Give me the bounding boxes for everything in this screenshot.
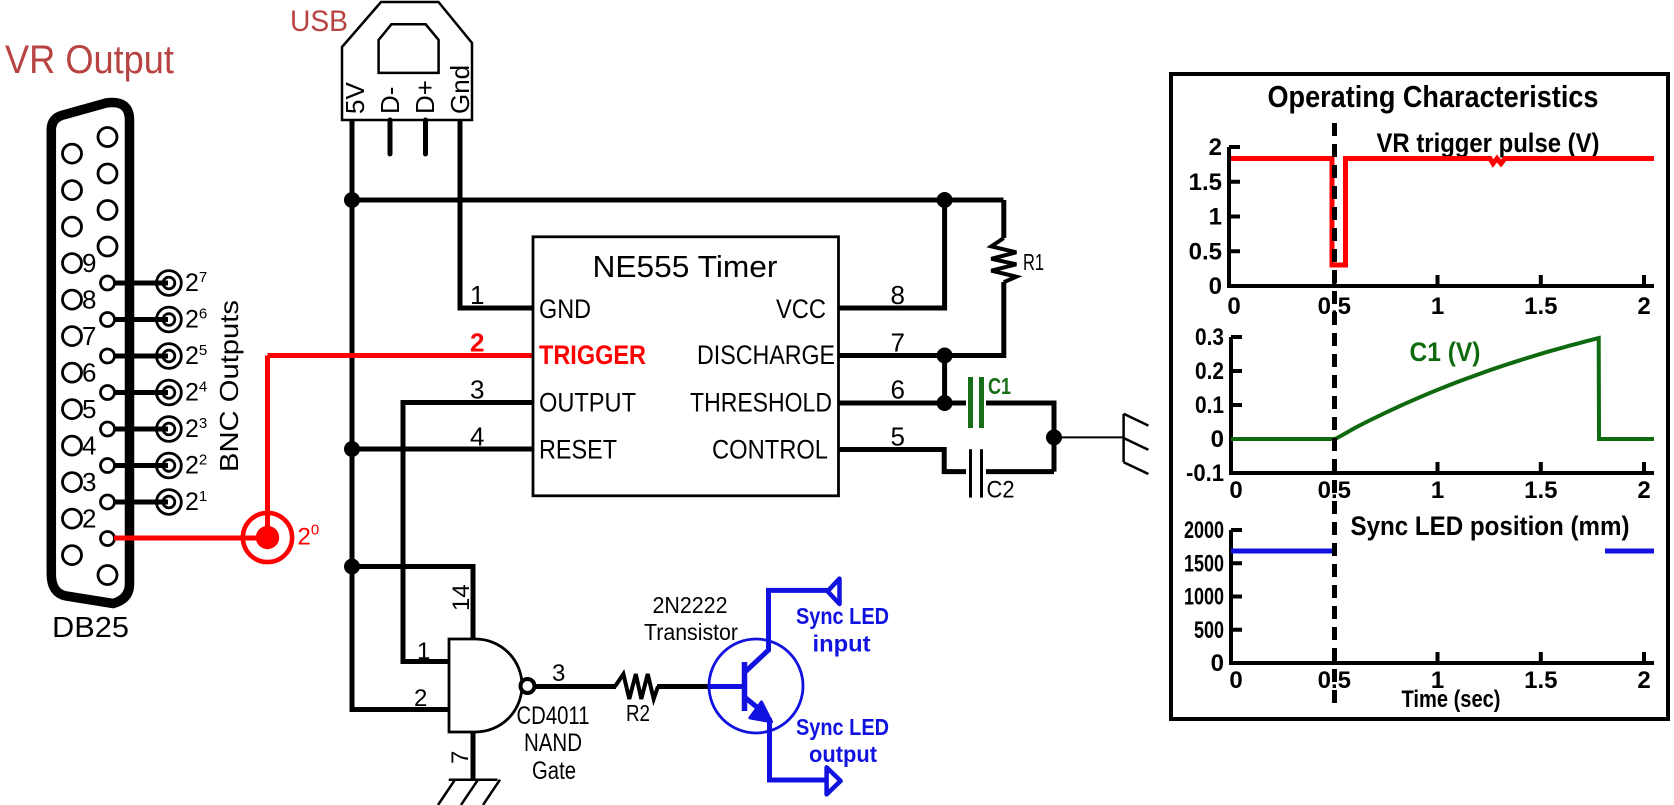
svg-text:DB25: DB25 [52,612,129,644]
svg-text:VR trigger pulse (V): VR trigger pulse (V) [1377,128,1600,158]
svg-text:3: 3 [470,375,484,405]
svg-text:output: output [809,741,877,767]
svg-text:0.2: 0.2 [1195,358,1224,385]
svg-text:1: 1 [470,280,484,310]
svg-text:0: 0 [1211,650,1224,677]
svg-text:1: 1 [417,638,430,665]
svg-text:1: 1 [1431,293,1444,320]
svg-text:C2: C2 [987,477,1015,504]
svg-text:THRESHOLD: THRESHOLD [690,388,832,418]
svg-text:1.5: 1.5 [1524,477,1557,504]
svg-text:0: 0 [1229,477,1242,504]
svg-text:1.5: 1.5 [1524,293,1557,320]
svg-text:24: 24 [185,379,207,407]
svg-text:DISCHARGE: DISCHARGE [697,340,835,370]
svg-text:2: 2 [414,685,427,712]
svg-text:1: 1 [1209,204,1222,231]
svg-text:0: 0 [1227,293,1240,320]
svg-text:Gate: Gate [532,757,576,785]
svg-text:22: 22 [185,452,207,480]
svg-text:2N2222: 2N2222 [653,592,728,618]
svg-text:0: 0 [1209,273,1222,300]
svg-text:1500: 1500 [1184,550,1224,577]
svg-text:5: 5 [891,422,905,452]
svg-text:2: 2 [1637,667,1650,694]
svg-text:4: 4 [470,422,484,452]
svg-text:3: 3 [82,467,96,497]
svg-text:2: 2 [1209,134,1222,161]
svg-text:2: 2 [82,504,96,534]
svg-text:6: 6 [82,358,96,388]
svg-text:7: 7 [82,321,96,351]
svg-text:OUTPUT: OUTPUT [539,388,636,418]
svg-text:VR Output: VR Output [5,38,174,82]
svg-text:2: 2 [1637,293,1650,320]
svg-text:4: 4 [82,431,96,461]
svg-text:input: input [813,631,871,657]
svg-text:NE555 Timer: NE555 Timer [593,249,778,284]
svg-text:7: 7 [447,751,474,764]
svg-text:9: 9 [82,248,96,278]
svg-text:25: 25 [185,342,207,370]
svg-text:CONTROL: CONTROL [712,435,828,465]
svg-text:D-: D- [375,87,405,114]
svg-text:0: 0 [1229,667,1242,694]
svg-text:-0.1: -0.1 [1186,460,1224,487]
svg-text:NAND: NAND [524,729,582,757]
svg-text:R1: R1 [1023,249,1044,275]
svg-text:500: 500 [1194,617,1224,644]
svg-text:Transistor: Transistor [644,619,738,645]
svg-text:TRIGGER: TRIGGER [539,340,646,370]
svg-text:0: 0 [1211,426,1224,453]
svg-text:21: 21 [185,488,207,516]
svg-text:26: 26 [185,306,207,334]
svg-text:0.3: 0.3 [1195,324,1224,351]
svg-text:1.5: 1.5 [1189,169,1222,196]
svg-text:Time (sec): Time (sec) [1402,686,1501,713]
svg-text:2: 2 [470,328,484,358]
svg-text:2000: 2000 [1184,517,1224,544]
svg-text:8: 8 [82,285,96,315]
svg-text:RESET: RESET [539,435,617,465]
svg-text:1000: 1000 [1184,584,1224,611]
svg-text:0.1: 0.1 [1195,392,1224,419]
svg-text:GND: GND [539,294,591,324]
svg-text:Sync LED: Sync LED [796,714,889,740]
svg-text:1.5: 1.5 [1524,667,1557,694]
svg-text:2: 2 [1637,477,1650,504]
svg-text:VCC: VCC [776,294,826,324]
svg-text:14: 14 [448,584,475,611]
svg-text:1: 1 [1431,477,1444,504]
svg-text:USB: USB [290,5,348,38]
svg-text:BNC Outputs: BNC Outputs [214,300,244,472]
svg-text:7: 7 [891,328,905,358]
svg-text:R2: R2 [626,700,650,726]
svg-text:D+: D+ [410,80,440,114]
svg-text:Sync LED: Sync LED [796,603,889,629]
svg-text:23: 23 [185,415,207,443]
svg-text:6: 6 [891,375,905,405]
svg-text:8: 8 [891,280,905,310]
svg-text:CD4011: CD4011 [517,702,590,730]
svg-text:0.5: 0.5 [1189,238,1222,265]
svg-text:20: 20 [298,522,320,551]
svg-text:27: 27 [185,269,207,297]
svg-text:5V: 5V [340,82,370,114]
svg-text:Operating Characteristics: Operating Characteristics [1268,79,1599,114]
svg-text:5: 5 [82,394,96,424]
svg-text:3: 3 [552,660,565,687]
svg-text:Gnd: Gnd [445,65,475,114]
svg-text:C1: C1 [988,373,1011,399]
svg-text:C1 (V): C1 (V) [1410,337,1481,367]
svg-text:Sync LED position (mm): Sync LED position (mm) [1351,511,1630,541]
